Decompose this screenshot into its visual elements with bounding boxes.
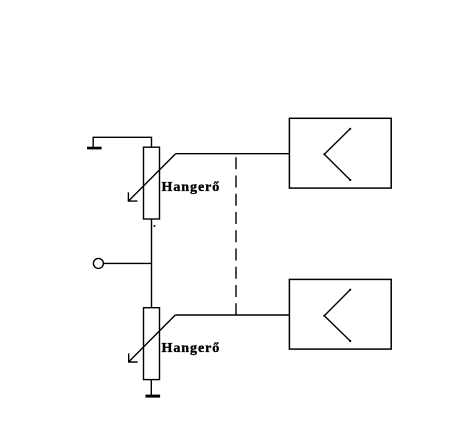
wire input terminal to center node <box>104 262 152 264</box>
speaker LS1 box <box>289 118 391 188</box>
ground (top left) <box>87 147 102 150</box>
speaker LS2 box <box>289 279 391 349</box>
potentiometer P2 body <box>144 308 160 380</box>
speaker LS1 chevron <box>323 128 351 181</box>
potentiometer P2 wiper arrow <box>129 315 176 362</box>
dashed gang line between P1 and P2 wipers <box>235 157 237 315</box>
speaker LS2 chevron <box>323 289 351 343</box>
wire ground to top of potentiometer P1 <box>93 137 151 147</box>
potentiometer P1 body <box>144 147 160 219</box>
label "Hangerő" for P1 <box>162 181 221 195</box>
ground (bottom) <box>146 395 161 398</box>
stray junction dot <box>154 225 156 227</box>
label "Hangerő" for P2 <box>162 342 221 356</box>
wire P2 bottom to ground <box>150 380 152 395</box>
potentiometer P1 wiper arrow <box>128 154 175 201</box>
input terminal node (circle) <box>93 258 103 268</box>
wire P2 wiper to speaker LS2 <box>175 314 289 316</box>
wire P1 bottom to P2 top <box>151 219 153 308</box>
wire P1 wiper to speaker LS1 <box>176 153 290 155</box>
